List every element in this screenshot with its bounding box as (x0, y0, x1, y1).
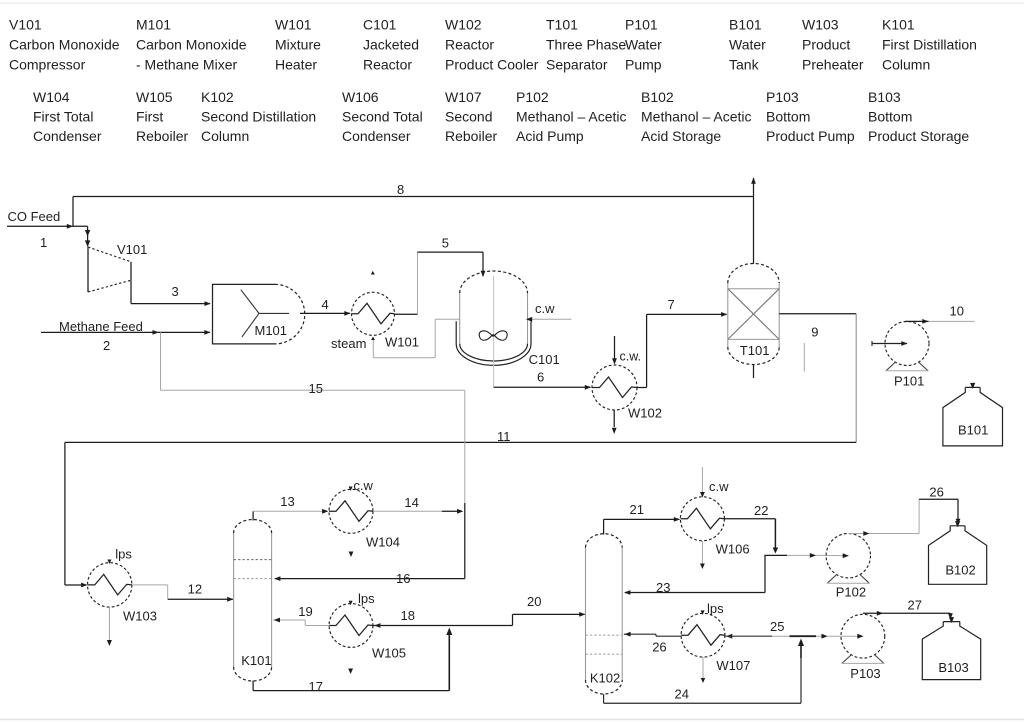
svg-text:c.w.: c.w. (620, 350, 642, 364)
svg-text:6: 6 (537, 370, 544, 385)
svg-text:M101: M101 (255, 323, 288, 338)
svg-text:Bottom: Bottom (766, 109, 810, 125)
svg-text:Acid Pump: Acid Pump (516, 128, 584, 144)
svg-text:T101: T101 (546, 17, 578, 33)
svg-text:V101: V101 (117, 242, 147, 257)
svg-text:W102: W102 (628, 406, 662, 421)
svg-text:Second Total: Second Total (342, 109, 423, 125)
svg-text:19: 19 (298, 604, 312, 619)
svg-text:Second Distillation: Second Distillation (201, 109, 316, 125)
svg-text:W101: W101 (275, 17, 312, 33)
svg-text:Reactor: Reactor (363, 57, 412, 73)
svg-text:Reboiler: Reboiler (136, 128, 188, 144)
svg-text:15: 15 (309, 381, 323, 396)
svg-text:22: 22 (754, 503, 768, 518)
svg-text:C101: C101 (363, 17, 397, 33)
svg-text:1: 1 (40, 235, 47, 250)
svg-text:c.w: c.w (709, 479, 729, 494)
svg-text:P102: P102 (516, 89, 549, 105)
svg-text:W104: W104 (366, 535, 400, 550)
svg-text:Separator: Separator (546, 57, 608, 73)
svg-text:Product Storage: Product Storage (868, 128, 969, 144)
svg-text:First Total: First Total (33, 109, 93, 125)
svg-text:Condenser: Condenser (33, 128, 102, 144)
svg-text:Second: Second (445, 109, 492, 125)
svg-text:lps: lps (358, 591, 375, 606)
svg-text:11: 11 (497, 429, 511, 444)
svg-text:B102: B102 (945, 563, 975, 578)
svg-text:7: 7 (668, 297, 675, 312)
svg-text:K102: K102 (590, 671, 620, 686)
svg-text:lps: lps (707, 601, 724, 616)
svg-text:9: 9 (811, 325, 818, 340)
svg-text:Carbon Monoxide: Carbon Monoxide (136, 37, 247, 53)
svg-text:P101: P101 (894, 374, 924, 389)
svg-text:lps: lps (115, 547, 132, 562)
svg-text:5: 5 (442, 236, 449, 251)
svg-text:Product: Product (802, 37, 850, 53)
svg-text:C101: C101 (529, 352, 560, 367)
svg-text:26: 26 (652, 640, 666, 655)
svg-text:First: First (136, 109, 163, 125)
svg-text:B101: B101 (729, 17, 762, 33)
svg-text:Jacketed: Jacketed (363, 37, 419, 53)
svg-text:Bottom: Bottom (868, 109, 912, 125)
svg-text:Reactor: Reactor (445, 37, 494, 53)
svg-text:Product Cooler: Product Cooler (445, 57, 539, 73)
svg-text:Compressor: Compressor (9, 57, 86, 73)
svg-text:Pump: Pump (625, 57, 662, 73)
svg-text:25: 25 (770, 619, 784, 634)
svg-text:Three Phase: Three Phase (546, 37, 626, 53)
svg-text:Methanol – Acetic: Methanol – Acetic (516, 109, 627, 125)
svg-text:Preheater: Preheater (802, 57, 864, 73)
svg-text:B103: B103 (938, 660, 968, 675)
svg-text:Methane Feed: Methane Feed (59, 319, 143, 334)
svg-text:W106: W106 (342, 89, 379, 105)
svg-text:24: 24 (675, 686, 689, 701)
svg-text:W105: W105 (136, 89, 173, 105)
svg-text:17: 17 (309, 679, 323, 694)
svg-text:13: 13 (280, 494, 294, 509)
svg-text:14: 14 (404, 495, 418, 510)
svg-text:Mixture: Mixture (275, 37, 321, 53)
svg-text:W103: W103 (123, 609, 157, 624)
svg-text:steam: steam (331, 336, 366, 351)
svg-text:3: 3 (172, 284, 179, 299)
svg-text:27: 27 (908, 598, 922, 613)
svg-text:Column: Column (882, 57, 930, 73)
svg-text:P101: P101 (625, 17, 658, 33)
svg-text:21: 21 (630, 502, 644, 517)
svg-text:Acid Storage: Acid Storage (641, 128, 721, 144)
svg-text:23: 23 (656, 580, 670, 595)
svg-text:4: 4 (322, 297, 329, 312)
svg-text:P103: P103 (850, 666, 880, 681)
svg-text:P103: P103 (766, 89, 799, 105)
svg-text:W103: W103 (802, 17, 839, 33)
svg-text:Heater: Heater (275, 57, 317, 73)
svg-text:W107: W107 (716, 658, 750, 673)
svg-text:10: 10 (950, 304, 964, 319)
svg-text:K101: K101 (241, 653, 271, 668)
svg-text:2: 2 (103, 338, 110, 353)
svg-text:16: 16 (396, 571, 410, 586)
svg-text:B101: B101 (958, 423, 988, 438)
svg-text:8: 8 (397, 182, 404, 197)
svg-text:B103: B103 (868, 89, 901, 105)
svg-text:W106: W106 (716, 542, 750, 557)
svg-text:c.w: c.w (353, 478, 373, 493)
svg-text:Methanol – Acetic: Methanol – Acetic (641, 109, 752, 125)
svg-text:Condenser: Condenser (342, 128, 411, 144)
svg-text:B102: B102 (641, 89, 674, 105)
svg-text:P102: P102 (836, 585, 866, 600)
svg-text:Water: Water (625, 37, 662, 53)
svg-text:26: 26 (929, 485, 943, 500)
svg-text:M101: M101 (136, 17, 171, 33)
svg-text:Carbon Monoxide: Carbon Monoxide (9, 37, 120, 53)
svg-text:- Methane Mixer: - Methane Mixer (136, 57, 237, 73)
svg-text:18: 18 (401, 608, 415, 623)
svg-text:T101: T101 (740, 343, 770, 358)
svg-text:Column: Column (201, 128, 249, 144)
svg-text:K101: K101 (882, 17, 915, 33)
svg-text:W105: W105 (372, 646, 406, 661)
svg-text:Product Pump: Product Pump (766, 128, 855, 144)
svg-text:12: 12 (188, 582, 202, 597)
svg-text:First Distillation: First Distillation (882, 37, 977, 53)
svg-text:CO Feed: CO Feed (8, 209, 61, 224)
svg-text:W104: W104 (33, 89, 70, 105)
svg-text:W107: W107 (445, 89, 482, 105)
svg-text:W102: W102 (445, 17, 482, 33)
svg-text:Reboiler: Reboiler (445, 128, 497, 144)
svg-text:Tank: Tank (729, 57, 760, 73)
svg-text:c.w: c.w (535, 301, 555, 316)
svg-text:20: 20 (527, 594, 541, 609)
svg-text:K102: K102 (201, 89, 234, 105)
svg-text:Water: Water (729, 37, 766, 53)
svg-text:W101: W101 (385, 334, 419, 349)
svg-text:V101: V101 (9, 17, 42, 33)
